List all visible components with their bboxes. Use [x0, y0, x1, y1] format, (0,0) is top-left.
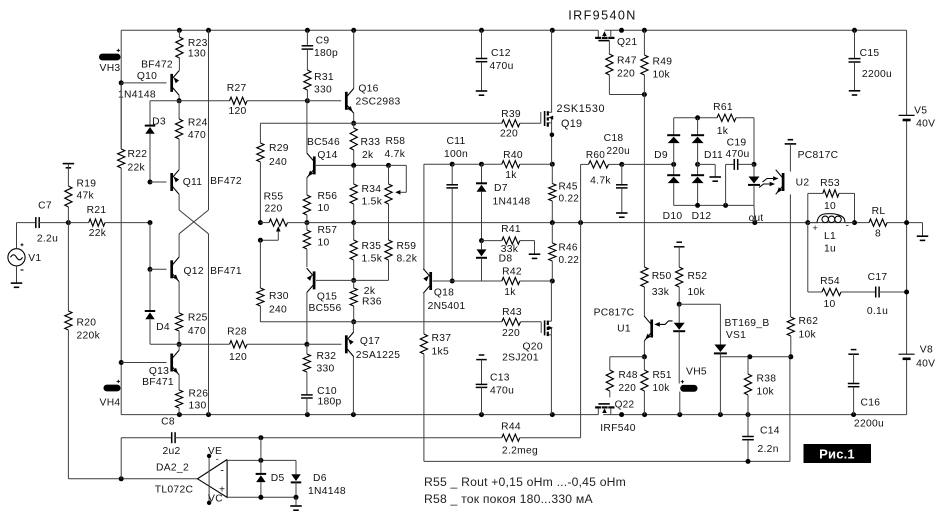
svg-text:PC817C: PC817C	[798, 150, 839, 161]
svg-text:PC817C: PC817C	[594, 308, 635, 319]
svg-text:C11: C11	[446, 136, 465, 147]
svg-text:L1: L1	[824, 231, 836, 242]
wire cross-coupling X (right rail to Q12 collector)	[208, 30, 210, 210]
diode D8	[481, 241, 483, 250]
wire R53 to right riser	[839, 192, 855, 194]
wire Q20 source to bottom rail	[550, 335, 552, 415]
lamp VH5	[680, 385, 697, 392]
node RL right junction	[904, 220, 909, 225]
wire tap to R52	[678, 247, 680, 267]
wire U2 collector lead	[789, 144, 791, 172]
wire C9 to R31	[306, 49, 308, 70]
svg-text:47k: 47k	[77, 191, 95, 202]
wire right vertical rail (V5/V8 branch)	[906, 30, 908, 115]
svg-text:R41: R41	[501, 224, 521, 235]
wire R39 to Q19 gate	[520, 122, 541, 124]
capacitor C17	[875, 287, 877, 298]
node Q17 base junction	[304, 342, 309, 347]
svg-text:1N4148: 1N4148	[493, 197, 531, 208]
wire Q19 source to R45	[551, 123, 553, 164]
node D5 top junction	[258, 458, 263, 463]
node R58 top junction	[386, 163, 391, 168]
svg-text:C10: C10	[317, 386, 337, 397]
ground at output right	[917, 235, 929, 237]
node U1 emitter junction	[642, 354, 647, 359]
diode D11	[697, 118, 699, 135]
svg-text:2u2: 2u2	[162, 446, 180, 457]
svg-text:C12: C12	[491, 48, 511, 59]
svg-text:2200u: 2200u	[854, 419, 884, 430]
wire Q11 base ledger	[150, 181, 167, 183]
resistor R41	[502, 237, 520, 244]
trimmer R58	[385, 184, 392, 204]
diode D3	[145, 125, 156, 127]
wire cross-coupling X (Q11 collector to right rail)	[178, 194, 180, 210]
svg-text:R43: R43	[502, 307, 522, 318]
wire R31 to node	[306, 90, 308, 101]
resistor R26	[176, 390, 183, 408]
wire R51 to bottom rail	[643, 391, 645, 415]
resistor R20	[67, 223, 69, 311]
wire R49 column down to R50	[643, 75, 645, 267]
svg-text:1k: 1k	[505, 170, 517, 181]
wire R20 to op-amp output	[67, 330, 69, 479]
resistor R21	[68, 222, 88, 224]
svg-text:1N4148: 1N4148	[308, 486, 346, 497]
svg-text:R51: R51	[653, 370, 672, 381]
svg-text:2SJ201: 2SJ201	[502, 353, 539, 364]
lamp VH3	[99, 54, 121, 61]
wire Q18 emitter ledger	[424, 163, 452, 165]
node feedback riser junction	[578, 220, 583, 225]
svg-text:D9: D9	[654, 150, 668, 161]
node C17 right rail junction	[904, 290, 909, 295]
capacitor C7	[35, 217, 37, 228]
svg-text:470u: 470u	[490, 386, 514, 397]
transistor Q18 2N5401	[429, 272, 432, 290]
node Q12 base junction	[148, 267, 153, 272]
svg-text:22k: 22k	[128, 163, 146, 174]
svg-text:R59: R59	[397, 241, 417, 252]
wire R46 to Q20 drain node	[551, 261, 553, 281]
wire R34 leads	[353, 165, 355, 184]
wire D-column R21 node down to Q12 base	[149, 223, 151, 270]
ground below D6	[290, 505, 302, 507]
resistor R32	[306, 344, 308, 354]
wiper arrow R55	[277, 230, 279, 241]
wire ledger to D7/R40 node	[452, 163, 481, 165]
wire R43 to Q20 gate	[521, 321, 542, 323]
svg-text:BC556: BC556	[309, 303, 342, 314]
svg-text:100n: 100n	[444, 149, 468, 160]
transistor Q11 BF472	[170, 173, 173, 191]
capacitor C15	[854, 30, 856, 58]
svg-text:R35: R35	[362, 241, 382, 252]
svg-text:+: +	[813, 223, 819, 233]
resistor R51	[643, 357, 645, 370]
svg-text:220: 220	[264, 204, 282, 215]
svg-text:V8: V8	[920, 345, 933, 356]
wire R55 node to R30	[259, 240, 261, 288]
resistor R59	[388, 204, 390, 240]
node bridge top mid junction	[695, 115, 700, 120]
svg-text:C15: C15	[860, 48, 880, 59]
svg-text:Q17: Q17	[360, 336, 380, 347]
ground above R19	[63, 163, 75, 165]
svg-text:Q11: Q11	[183, 177, 203, 188]
svg-text:8.2k: 8.2k	[397, 254, 418, 265]
node R62 / gate ledger junction	[788, 354, 793, 359]
svg-text:Q12: Q12	[184, 266, 204, 277]
wire R56 to R55 node	[306, 215, 308, 223]
wire bridge bottom ledger	[674, 204, 754, 206]
svg-text:R28: R28	[227, 327, 247, 338]
node R45 top junction	[550, 162, 555, 167]
resistor R19	[65, 186, 72, 207]
wire Q17 base ledger	[307, 343, 342, 345]
capacitor C19	[726, 163, 735, 165]
svg-text:2.2meg: 2.2meg	[502, 446, 538, 457]
svg-text:Q19: Q19	[561, 118, 582, 130]
wire VS1 gate ledger	[720, 356, 790, 358]
svg-text:470: 470	[188, 130, 206, 141]
wire R55 junction wire to feedback ledger	[307, 222, 354, 224]
svg-text:R49: R49	[653, 57, 673, 68]
svg-text:2k: 2k	[362, 150, 374, 161]
wire Q13 collector to node	[178, 344, 180, 350]
svg-text:R32: R32	[317, 351, 337, 362]
svg-text:220k: 220k	[77, 331, 101, 342]
node R21/diode column junction	[148, 220, 153, 225]
wire Q17 emitter from ledger	[352, 322, 354, 332]
svg-text:0.22: 0.22	[559, 255, 580, 266]
svg-text:Q18: Q18	[434, 288, 454, 299]
resistor R57	[306, 223, 308, 230]
resistor R25	[176, 313, 183, 331]
wire feedback ledger (out rail) long run	[354, 222, 869, 224]
wire V1 top lead	[16, 223, 18, 249]
node Q15 base / R35 / R36 junction	[351, 278, 356, 283]
node bridge left mid junction	[671, 162, 676, 167]
svg-text:R58: R58	[386, 136, 406, 147]
wire bottom negative rail (right section)	[603, 414, 906, 416]
svg-text:2200u: 2200u	[862, 69, 892, 80]
svg-text:V1: V1	[28, 253, 41, 264]
svg-text:C13: C13	[490, 373, 510, 384]
svg-text:10: 10	[823, 299, 835, 310]
svg-text:R45: R45	[559, 182, 578, 193]
svg-text:out: out	[749, 213, 764, 224]
wire Q13 emitter to R26	[178, 375, 180, 390]
svg-text:10: 10	[824, 201, 836, 212]
diode D5	[260, 460, 262, 474]
wire bottom negative rail (left section)	[121, 414, 598, 416]
phototransistor U1	[650, 320, 653, 338]
svg-text:120: 120	[229, 352, 247, 363]
svg-text:BF472: BF472	[210, 176, 242, 187]
svg-text:R21: R21	[87, 205, 107, 216]
resistor R61	[717, 114, 736, 121]
resistor R40	[482, 163, 502, 165]
resistor R54	[808, 291, 822, 293]
svg-text:4.7k: 4.7k	[590, 176, 611, 187]
node input junction	[66, 220, 71, 225]
svg-text:BC546: BC546	[307, 137, 340, 148]
wire Q18 emitter column	[423, 164, 425, 270]
wire Q12 emitter to R25	[178, 282, 180, 313]
svg-text:-: -	[846, 221, 850, 232]
svg-text:U1: U1	[617, 324, 631, 335]
resistor R53	[823, 190, 839, 197]
svg-text:33k: 33k	[652, 287, 670, 298]
wire Q16 collector to top rail	[353, 30, 355, 88]
diode D9	[673, 118, 675, 135]
wire R35 leads	[353, 223, 355, 240]
node bridge mid junction	[695, 162, 700, 167]
svg-text:R60: R60	[586, 150, 605, 161]
wire D7 to R41 node	[481, 192, 483, 241]
LED of optocoupler U1	[678, 304, 680, 323]
resistor R28	[230, 341, 248, 348]
wire R37 down to gate-drive ledger	[423, 354, 425, 461]
svg-text:R42: R42	[502, 267, 522, 278]
resistor R56	[303, 195, 310, 215]
node Q10 base junction	[119, 80, 124, 85]
svg-text:22k: 22k	[89, 228, 107, 239]
wire U1 emitter to R48/R51 node	[643, 341, 645, 357]
resistor R46	[551, 223, 553, 243]
wire Q13 base ledger	[121, 362, 166, 364]
node Q14 base / R33 / R34 junction	[351, 163, 356, 168]
node Q16 emitter junction	[351, 121, 356, 126]
resistor R24	[178, 101, 180, 119]
svg-text:BF471: BF471	[142, 377, 174, 388]
capacitor C16 (negative-rail electrolytic)	[851, 349, 857, 351]
svg-text:1N4148: 1N4148	[118, 90, 156, 101]
svg-text:R56: R56	[318, 191, 338, 202]
svg-text:1u: 1u	[824, 244, 836, 255]
wire R60 to C18 node	[609, 163, 622, 165]
source V1	[8, 249, 25, 266]
svg-text:BT169_B: BT169_B	[724, 318, 769, 329]
wire R54 to C17	[841, 291, 876, 293]
node D5 bottom junction	[258, 495, 263, 500]
wire bridge to out rail	[753, 205, 756, 222]
svg-text:D12: D12	[692, 211, 712, 222]
transistor Q16 2SC2983	[345, 92, 348, 110]
wire R33 to base node	[353, 150, 355, 165]
svg-text:220: 220	[500, 129, 518, 140]
svg-text:R37: R37	[432, 333, 452, 344]
ground above U2 (inverted)	[788, 139, 794, 141]
wire Q17 collector to bottom rail	[352, 357, 354, 415]
svg-text:10k: 10k	[653, 383, 671, 394]
node Q18 base junction	[450, 279, 455, 284]
svg-text:R20: R20	[77, 318, 97, 329]
node C19 bottom junction	[723, 203, 728, 208]
wire R62 to VS1 gate node	[790, 336, 792, 357]
svg-text:R23: R23	[188, 38, 208, 49]
svg-text:470u: 470u	[490, 61, 514, 72]
svg-text:R46: R46	[559, 243, 578, 254]
svg-text:D5: D5	[271, 473, 285, 484]
wire C7 to input node	[39, 222, 68, 224]
wire R58 leads	[388, 165, 390, 184]
svg-text:470u: 470u	[725, 149, 749, 160]
svg-text:10k: 10k	[757, 387, 775, 398]
battery V8	[899, 353, 915, 355]
svg-text:2.2n: 2.2n	[758, 444, 779, 455]
wire left vertical rail x=121 (lower)	[120, 168, 122, 415]
wire R58 wiper feed	[389, 164, 407, 166]
capacitor C12	[481, 30, 483, 58]
phototransistor U2	[782, 173, 785, 191]
transistor Q15 BC556	[313, 271, 316, 289]
transistor Q21 IRF9540N (in top rail)	[597, 30, 599, 38]
node C18 junction	[619, 162, 624, 167]
svg-text:D6: D6	[313, 473, 327, 484]
ground below C15	[849, 90, 861, 92]
resistor R29	[257, 143, 264, 162]
lamp VH4	[104, 385, 121, 392]
node out junction	[752, 220, 757, 225]
wire C8 to R44 ledger	[175, 437, 502, 439]
svg-text:R24: R24	[188, 118, 208, 129]
node R25/Q13-collector/R28 junction	[177, 342, 182, 347]
node C14 bottom junction	[746, 459, 751, 464]
wire R38 to bottom rail	[747, 395, 749, 415]
transistor Q12 BF471	[170, 260, 173, 278]
wire R29 to R55 node	[259, 162, 261, 223]
wire R19 to input node	[67, 207, 69, 223]
wire Q16 base ledger	[307, 100, 341, 102]
svg-text:-: -	[220, 464, 224, 476]
resistor R42	[502, 277, 520, 284]
svg-text:C8: C8	[161, 417, 175, 428]
wire to ground stub	[295, 497, 297, 506]
svg-text:VS1: VS1	[726, 330, 746, 341]
svg-text:R44: R44	[501, 422, 521, 433]
diode D6	[295, 460, 297, 474]
wire R53/L1 left riser	[807, 193, 809, 222]
svg-text:1.5k: 1.5k	[362, 197, 383, 208]
svg-text:-: -	[216, 454, 219, 464]
resistor R48	[606, 370, 613, 391]
svg-text:40V: 40V	[916, 359, 935, 370]
wire Q10 base ledger	[121, 82, 166, 84]
svg-text:R40: R40	[503, 150, 523, 161]
svg-text:1k: 1k	[717, 126, 729, 137]
wire R52 to LED node	[678, 287, 680, 304]
wire Q16 emitter to node	[353, 113, 355, 123]
wire C8 ledger from op-amp output	[120, 438, 122, 479]
wire U2 emitter down to R62	[789, 194, 791, 317]
wire R26 to bottom rail	[178, 408, 180, 415]
wire R40 to R45 column	[520, 163, 553, 165]
svg-text:10k: 10k	[688, 287, 706, 298]
svg-text:R26: R26	[189, 388, 209, 399]
node Q19 source dot	[550, 133, 555, 138]
wire R45 to out rail	[551, 201, 553, 223]
resistor R35	[350, 240, 357, 260]
wire R59 to Q15 base corner	[388, 260, 390, 280]
wire C14 to gate-drive ledger	[747, 440, 749, 462]
node op-amp output / C8 junction	[119, 476, 124, 481]
capacitor C10	[301, 394, 313, 396]
svg-text:D10: D10	[663, 211, 683, 222]
svg-text:D3: D3	[152, 117, 166, 128]
resistor R34	[350, 184, 357, 204]
diode D4	[149, 269, 151, 311]
wire R27 to R31/Q16 node	[247, 100, 307, 102]
wire R21 to D-column	[105, 222, 150, 224]
transistor Q22 IRF540 (in bottom rail)	[597, 407, 599, 414]
wire R50 to U1 collector	[643, 287, 645, 317]
svg-text:Q10: Q10	[137, 71, 157, 82]
svg-text:V5: V5	[914, 106, 927, 117]
svg-text:R54: R54	[820, 276, 840, 287]
resistor R37	[420, 334, 427, 354]
svg-text:Q16: Q16	[358, 84, 378, 95]
svg-text:C17: C17	[868, 272, 888, 283]
transistor Q17 2SA1225	[345, 335, 348, 353]
diode D12	[697, 143, 699, 175]
wire R32 to C10	[306, 372, 308, 395]
resistor R23	[178, 30, 180, 37]
svg-text:VH3: VH3	[100, 63, 121, 74]
node R47/R49 junction	[642, 92, 647, 97]
svg-text:C16: C16	[861, 398, 881, 409]
wire R25 to ledger node	[178, 331, 180, 344]
wire node to R48 corner	[610, 356, 645, 358]
svg-text:0.1u: 0.1u	[867, 306, 888, 317]
svg-text:D7: D7	[494, 183, 508, 194]
svg-text:C7: C7	[38, 201, 52, 212]
svg-text:RL: RL	[872, 206, 886, 217]
wire D3 to Q11 base node	[149, 134, 151, 182]
svg-text:D8: D8	[499, 254, 513, 265]
transistor Q20 2SJ201	[540, 322, 542, 333]
svg-text:2SC2983: 2SC2983	[355, 97, 400, 108]
wire C10 to bottom rail	[306, 398, 308, 415]
potentiometer R55	[260, 222, 269, 224]
svg-text:D4: D4	[156, 322, 170, 333]
wire R41 to ground	[520, 240, 535, 242]
svg-text:R62: R62	[799, 316, 819, 327]
wire Q12 base ledger	[150, 268, 167, 270]
wire C19 left riser	[725, 164, 727, 205]
resistor R49	[643, 30, 645, 55]
resistor R62	[787, 317, 794, 336]
resistor R45	[551, 164, 553, 183]
node R40/D7 junction	[479, 162, 484, 167]
wire out rail after RL	[887, 222, 923, 224]
figure label Рис.1	[804, 444, 872, 463]
negative-rail tap above R52	[676, 241, 682, 243]
svg-text:R19: R19	[77, 179, 97, 190]
node R41 junction	[479, 238, 484, 243]
resistor R44	[502, 434, 520, 441]
svg-text:130: 130	[189, 400, 207, 411]
resistor R47	[606, 54, 613, 75]
node top rail junction dots	[177, 28, 182, 33]
capacitor C13 (negative-rail electrolytic)	[479, 354, 485, 356]
capacitor C9	[306, 30, 308, 46]
wire VH5 to bottom rail	[679, 392, 681, 415]
node bottom rail junction dots	[177, 412, 182, 417]
resistor R27	[179, 100, 229, 102]
wire VS1 cathode to bottom rail	[719, 353, 721, 414]
